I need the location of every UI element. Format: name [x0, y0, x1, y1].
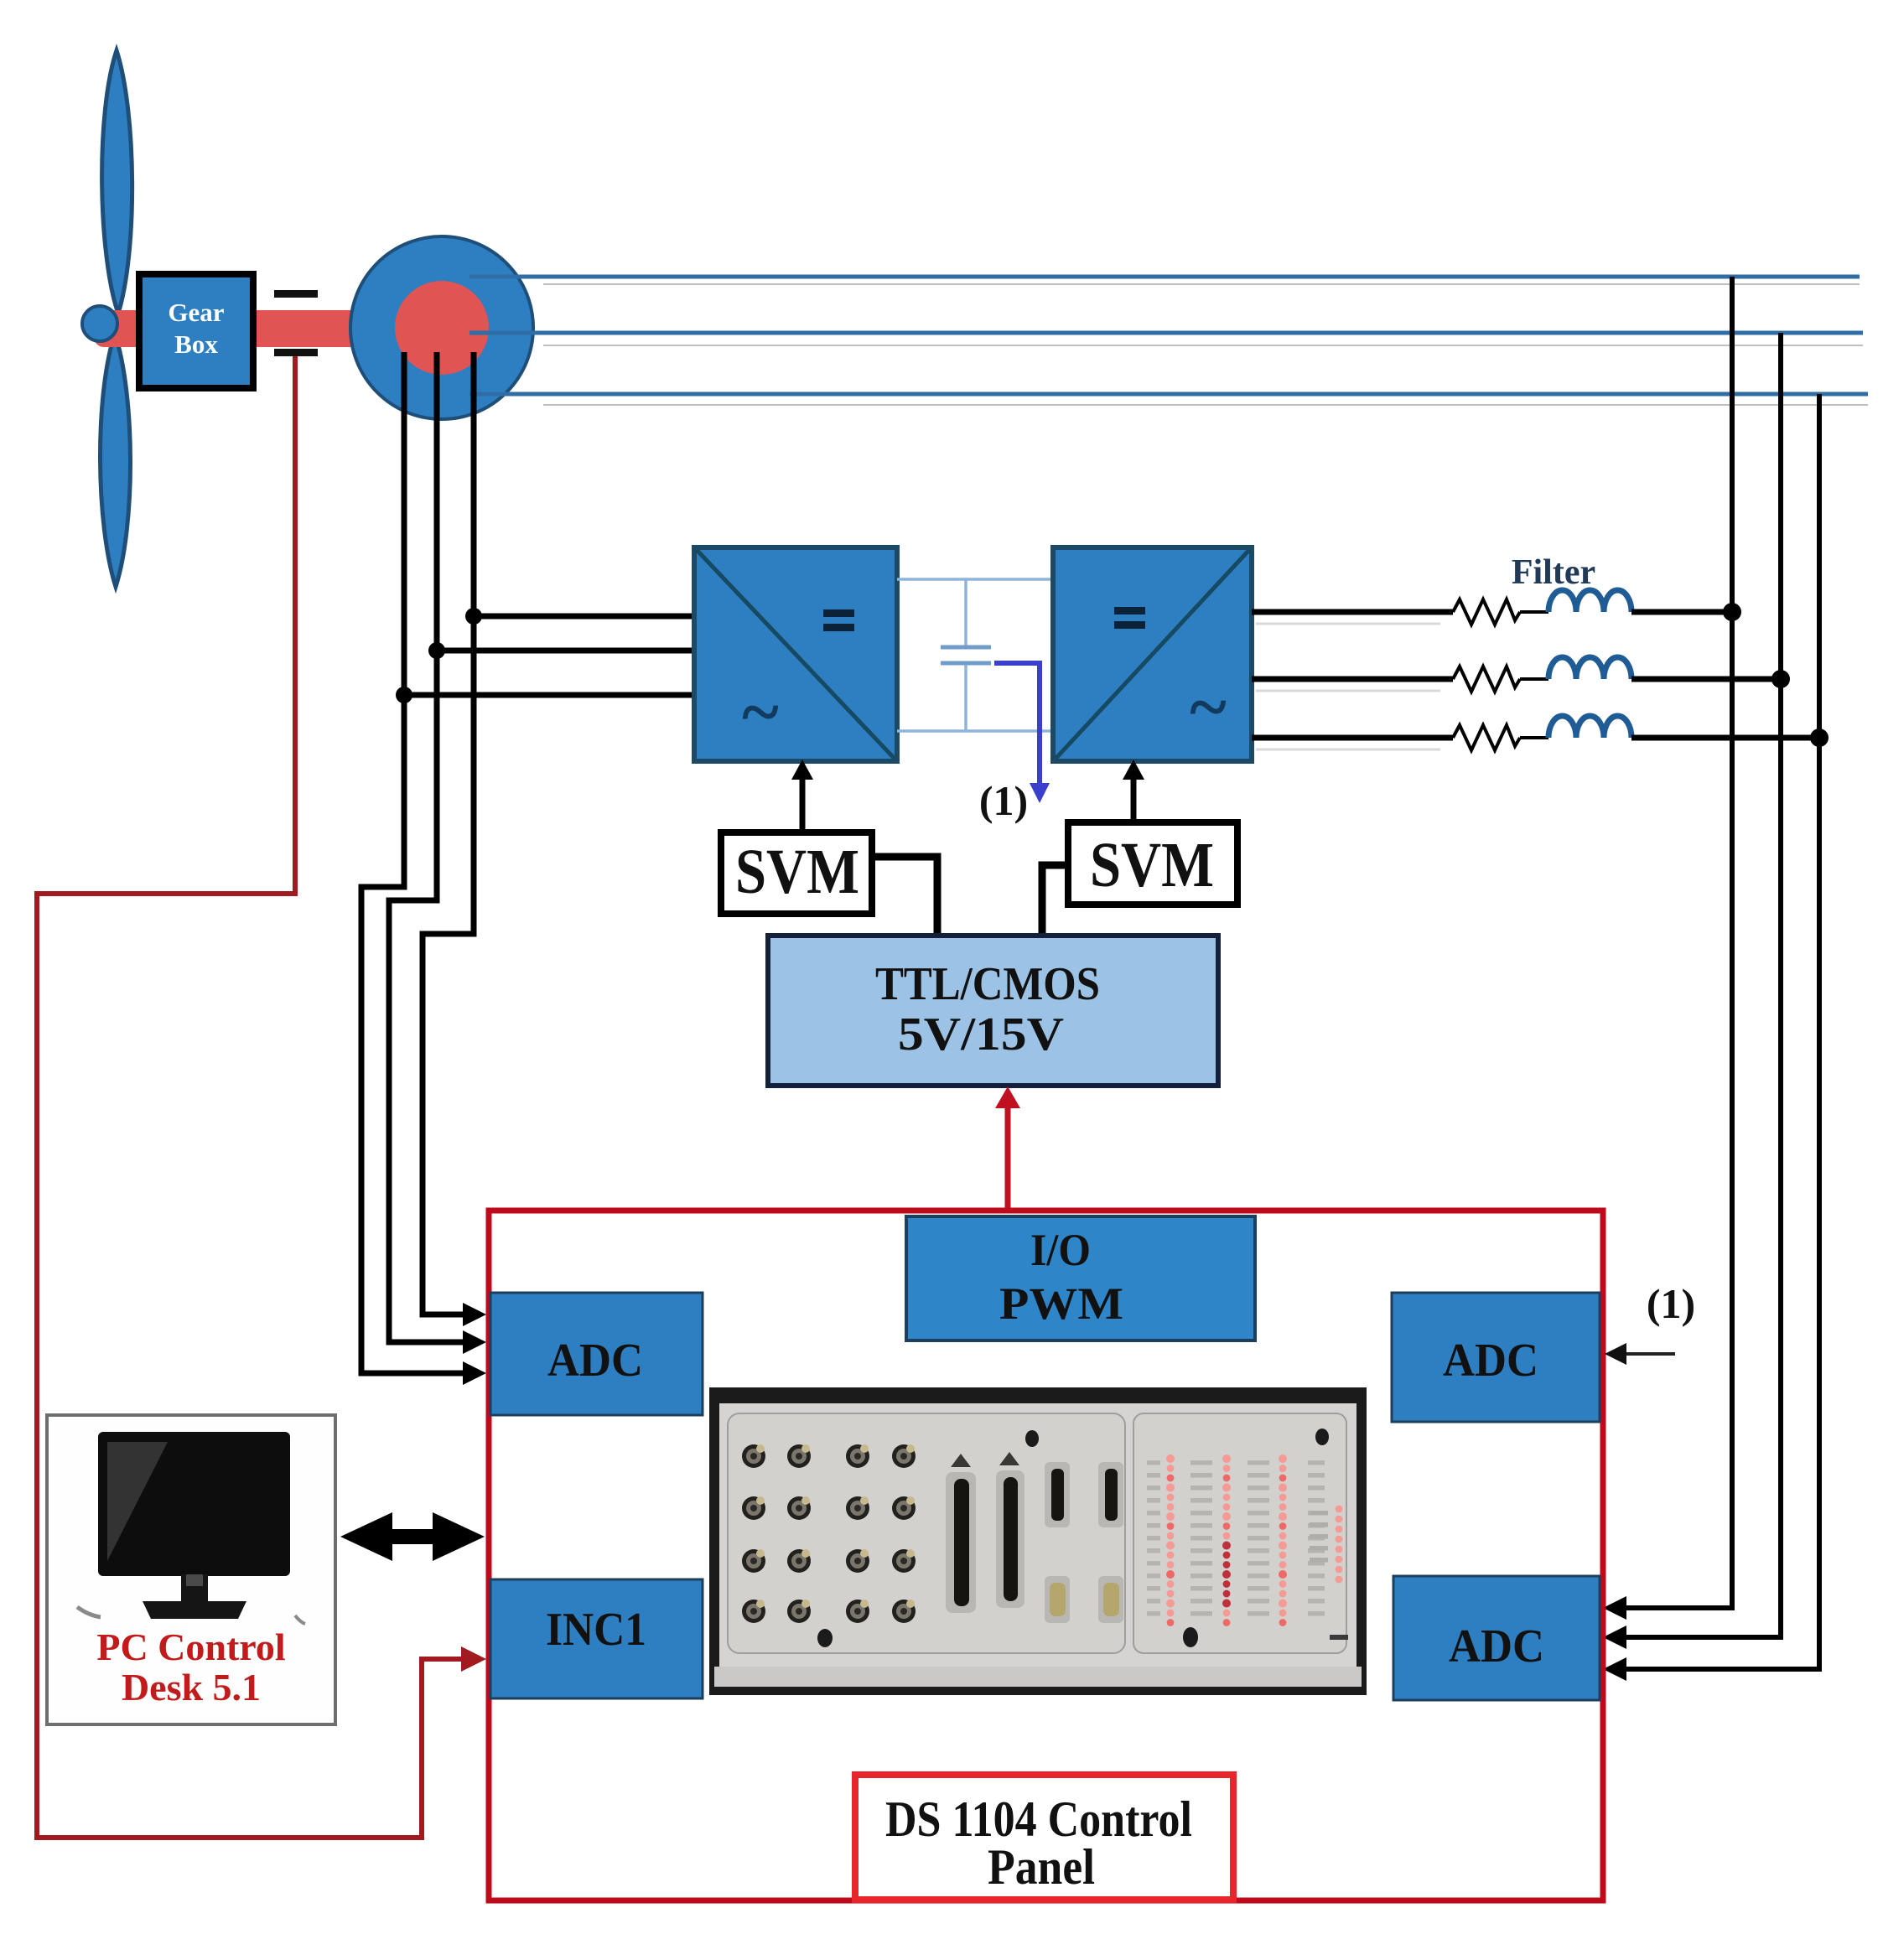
filter row3 wire right [1631, 735, 1819, 741]
BNC connector r1c3 [846, 1444, 869, 1468]
capacitor C1 plate top [941, 646, 991, 650]
filter row1 wire left [1252, 609, 1453, 615]
svg-text:~: ~ [742, 673, 779, 751]
BNC connector r3c2 [787, 1549, 811, 1573]
row3 link [1520, 736, 1548, 739]
BNC connector r1c1 [742, 1444, 765, 1468]
DS1104 panel boundary [489, 1211, 1603, 1900]
wire W1 branch to converter [404, 692, 696, 698]
dsub connector J3 [1045, 1576, 1070, 1623]
wire SVM1 to converter U1 [800, 773, 806, 832]
junction dot W3 [465, 608, 482, 625]
svg-text:(1): (1) [979, 777, 1028, 824]
panel mark bottom right [1330, 1635, 1348, 1640]
arrowhead grid C into ADC2 [1603, 1657, 1626, 1681]
wire dc measurement into ADC3 [1621, 1352, 1675, 1356]
GROUP: svm [721, 760, 1237, 1211]
stator wire W2 (phase b to converter and ADC1) [389, 352, 466, 1342]
filter row3 wire left [1252, 735, 1453, 741]
svg-text:ADC: ADC [1443, 1335, 1538, 1387]
BNC connector r3c3 [846, 1549, 869, 1573]
svg-text:5V/15V: 5V/15V [898, 1009, 1064, 1060]
filter row1 wire right [1631, 609, 1732, 615]
speed sensor wire (dark red) gearbox to INC1 [37, 356, 466, 1838]
TTL/CMOS interface block [768, 936, 1218, 1086]
LED panel label specks [1147, 1460, 1328, 1616]
svg-text:~: ~ [1190, 668, 1227, 746]
wire W2 branch to converter [437, 648, 696, 654]
LED sub-panel [1133, 1413, 1346, 1653]
resistor R3 [1453, 725, 1520, 750]
SVM block 2 [1068, 822, 1237, 905]
GROUP: panel [489, 1211, 1695, 1900]
grid drop wire A [1623, 277, 1732, 1608]
ribbon connector P2 [996, 1470, 1024, 1608]
ghost shadow under filter row3 [1256, 749, 1440, 751]
grid-side converter U2 [1053, 547, 1252, 761]
BNC connector r4c1 [742, 1600, 765, 1623]
photo bottom strip [714, 1667, 1362, 1687]
inductor L2 [1548, 657, 1631, 679]
panel screw S4 [1183, 1627, 1198, 1647]
inductor L1 [1548, 590, 1631, 612]
monitor screen [98, 1432, 290, 1576]
arrowhead dc measurement [1030, 783, 1050, 803]
filter row2 wire left [1252, 677, 1453, 682]
connector sub-panel [728, 1413, 1125, 1653]
row2 link [1520, 677, 1548, 681]
arrowhead speed wire into INC1 [461, 1646, 486, 1672]
machine-side converter U1 [694, 547, 897, 761]
GROUP: turbine [82, 50, 533, 587]
GROUP: converters [694, 547, 1252, 824]
capacitor C1 lead bottom [964, 665, 967, 731]
svg-text:INC1: INC1 [546, 1604, 646, 1656]
U2 dc symbol [1114, 607, 1145, 614]
LED column 4 (short) [1336, 1506, 1343, 1584]
BNC connector grid [742, 1444, 916, 1623]
BNC connector r1c4 [892, 1444, 916, 1468]
grid drop wire C [1623, 394, 1819, 1669]
desk mark left [77, 1607, 101, 1617]
GROUP: pc [47, 1415, 485, 1724]
ghost shadow under filter row2 [1256, 690, 1440, 692]
GROUP: statorwires [361, 352, 696, 1385]
BNC connector r4c4 [892, 1600, 916, 1623]
LED column 2 [1222, 1454, 1231, 1626]
arrowhead SVM1 to U1 [791, 760, 813, 780]
arrowhead grid A into ADC2 [1603, 1596, 1626, 1620]
U1 dc symbol [823, 609, 854, 617]
GROUP: redwires [37, 356, 486, 1838]
dsub connector J4 [1098, 1576, 1123, 1623]
junction dot filter row1 / drop A [1723, 603, 1741, 621]
monitor base [143, 1601, 246, 1619]
svg-text:Filter: Filter [1512, 553, 1595, 592]
desk mark right [295, 1615, 305, 1624]
I/O PWM block [906, 1216, 1255, 1340]
grid phase line A [469, 275, 1860, 279]
BNC connector r4c3 [846, 1600, 869, 1623]
grid phase line C shadow [543, 404, 1868, 406]
inductor L3 [1548, 716, 1631, 738]
BNC connector r2c3 [846, 1496, 869, 1520]
svg-text:PC Control: PC Control [96, 1626, 285, 1668]
svg-text:Desk 5.1: Desk 5.1 [122, 1666, 261, 1709]
GROUP: filter [1252, 553, 1819, 750]
arrowhead SVM2 to U2 [1123, 760, 1144, 780]
ribbon connector P1 [946, 1472, 976, 1613]
gear box GB [139, 274, 253, 388]
BNC connector r1c2 [787, 1444, 811, 1468]
coupling dash lower [274, 349, 318, 356]
turbine hub [82, 306, 117, 341]
capacitor C1 plate bottom [941, 661, 991, 666]
svg-text:Gear: Gear [168, 298, 224, 327]
dsub connector J1 [1045, 1462, 1070, 1527]
capacitor C1 lead top [964, 579, 967, 646]
filter row2 wire right [1631, 677, 1781, 682]
turbine blade lower [100, 334, 130, 587]
BNC connector r3c1 [742, 1549, 765, 1573]
GROUP: gridlines [469, 277, 1868, 1681]
panel screw S2 [1315, 1429, 1329, 1445]
resistor R1 [1453, 599, 1520, 625]
svg-text:(1): (1) [1647, 1280, 1695, 1327]
grid drop wire B [1623, 333, 1781, 1637]
LED column 1 [1166, 1454, 1175, 1626]
ADC1 block (left) [490, 1293, 703, 1415]
panel screw S3 [817, 1629, 833, 1647]
dc link top rail [897, 578, 1053, 581]
wire SVM1 to TTL box [872, 857, 937, 936]
SVM block 1 [721, 832, 872, 914]
BNC connector r2c1 [742, 1496, 765, 1520]
wire SVM2 to TTL box [1042, 865, 1068, 936]
PC control desk box [47, 1415, 335, 1724]
arrowhead W1 into ADC1 [463, 1361, 486, 1385]
svg-text:Box: Box [174, 329, 218, 359]
grid phase line B [469, 331, 1863, 335]
wire PWM to TTL (red) [1005, 1103, 1011, 1211]
arrowhead W2 into ADC1 [463, 1330, 486, 1354]
BNC connector r2c4 [892, 1496, 916, 1520]
turbine blade upper [102, 50, 132, 314]
BNC connector r2c2 [787, 1496, 811, 1520]
arrowhead PWM to TTL [995, 1086, 1020, 1108]
BNC connector r4c2 [787, 1600, 811, 1623]
svg-text:I/O: I/O [1030, 1225, 1091, 1275]
shaft [94, 310, 446, 347]
wire SVM2 to converter U2 [1131, 773, 1137, 822]
arrowhead W3 into ADC1 [463, 1303, 486, 1326]
grid phase line A shadow [543, 283, 1860, 285]
svg-text:Panel: Panel [988, 1839, 1095, 1895]
photo panel face [719, 1403, 1356, 1667]
stator wire W1 (phase c to converter and ADC1) [361, 352, 466, 1373]
ADC2 block (bottom right) [1393, 1576, 1600, 1700]
svg-text:PWM: PWM [999, 1278, 1123, 1329]
GROUP: photo [709, 1387, 1367, 1695]
LED banks [1147, 1454, 1342, 1626]
arrowhead grid B into ADC2 [1603, 1626, 1626, 1649]
generator rotor [395, 281, 489, 375]
wire W3 branch to converter [474, 614, 696, 620]
svg-text:ADC: ADC [547, 1335, 643, 1387]
LED column 3 [1279, 1454, 1287, 1626]
coupling dash upper [274, 290, 318, 298]
dsub connector J2 [1098, 1462, 1123, 1527]
INC1 block [490, 1579, 703, 1698]
BNC connector r3c4 [892, 1549, 916, 1573]
svg-text:ADC: ADC [1449, 1620, 1544, 1672]
dc link bottom rail [897, 729, 1053, 733]
svg-text:TTL/CMOS: TTL/CMOS [875, 958, 1100, 1010]
ghost shadow under filter row1 [1256, 623, 1440, 625]
svg-text:SVM: SVM [735, 837, 859, 907]
generator stator [350, 236, 533, 419]
ADC3 block (top right) [1392, 1293, 1600, 1422]
junction dot filter row2 / drop B [1771, 670, 1790, 688]
panel screw S1 [1025, 1430, 1039, 1447]
DS1104 label box [855, 1775, 1233, 1900]
arrowhead into ADC3 [1605, 1343, 1626, 1365]
grid phase line B shadow [543, 345, 1863, 346]
junction dot filter row3 / drop C [1810, 729, 1829, 747]
svg-text:SVM: SVM [1090, 830, 1214, 900]
junction dot W1 [396, 687, 412, 703]
resistor R2 [1453, 666, 1520, 692]
monitor neck [181, 1574, 208, 1605]
bidirectional bus arrow PC-panel [340, 1512, 485, 1561]
grid phase line C [469, 392, 1868, 397]
DS1104 connector-panel photo frame [709, 1387, 1367, 1695]
dc voltage measurement wire (blue) [994, 663, 1040, 786]
junction dot W2 [428, 642, 445, 659]
row1 link [1520, 610, 1548, 614]
stator wire W3 (phase a to converter and ADC1) [423, 352, 474, 1314]
